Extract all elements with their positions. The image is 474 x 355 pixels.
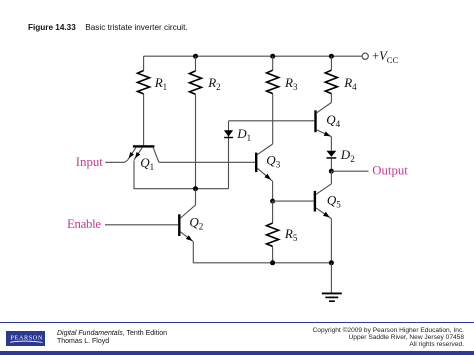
wire: D1 vertical from Q4 base line down to node B corner <box>228 121 230 189</box>
Q4 base bar <box>314 110 316 132</box>
copyright block <box>313 327 464 348</box>
svg-text:D2: D2 <box>340 147 355 164</box>
node: rail junction at R4 <box>329 54 334 59</box>
wire: down to ground <box>330 263 332 293</box>
svg-text:R1: R1 <box>154 75 167 92</box>
Q3 collector <box>257 144 272 155</box>
publication info <box>57 330 167 345</box>
svg-text:+VCC: +VCC <box>372 49 398 65</box>
Q5 base bar <box>314 191 316 212</box>
wire: Enable lead to Q2 base <box>105 224 178 226</box>
Q3 emitter with arrow <box>257 168 272 181</box>
wire: Q3 emitter down to node C <box>272 181 274 201</box>
wire: node C to Q5 base <box>273 200 314 202</box>
Q1 emitter 1 <box>128 148 136 160</box>
Q5 emitter with arrow <box>316 208 331 219</box>
svg-text:Q4: Q4 <box>326 112 340 129</box>
wire: Q5 emitter to ground node <box>330 219 332 263</box>
svg-text:Enable: Enable <box>67 217 101 231</box>
Q1 collector <box>153 148 159 163</box>
svg-text:Q1: Q1 <box>140 155 154 172</box>
wire: Q4 emitter to D2 <box>330 137 332 151</box>
node: ground junction dot <box>329 260 334 265</box>
transistor Q2 (enable) <box>178 189 195 242</box>
Q2 base bar <box>178 214 180 236</box>
svg-text:Q3: Q3 <box>266 152 280 169</box>
Pearson logo <box>6 331 46 345</box>
VCC terminal circle <box>362 53 368 59</box>
transistor Q1 (multi-emitter input transistor) <box>128 145 159 162</box>
wire: output lead <box>331 170 368 172</box>
node: R5 bottom junction dot <box>270 260 275 265</box>
figure caption <box>28 23 188 32</box>
svg-text:PEARSON: PEARSON <box>10 335 43 342</box>
D1 triangle <box>224 130 233 136</box>
Q2 collector <box>181 189 196 218</box>
node: rail junction at R3 <box>270 54 275 59</box>
Q4 emitter with arrow <box>317 130 332 137</box>
svg-text:Input: Input <box>76 155 103 169</box>
resistor R1 <box>138 56 150 145</box>
footer bottom blue band <box>0 351 474 355</box>
Q2 emitter with arrow <box>181 232 194 242</box>
D2 cathode bar <box>327 157 337 159</box>
svg-text:R2: R2 <box>207 75 220 92</box>
wire: Q1 emitter2 down and across to node B <box>134 160 229 188</box>
node: rail junction at R2 <box>193 54 198 59</box>
resistor R4 <box>325 56 337 102</box>
wire: +VCC top rail <box>144 55 362 57</box>
node C junction dot (Q3 emitter / R5 / Q5 base) <box>270 199 275 204</box>
D2 triangle <box>327 151 337 157</box>
wire: Input lead <box>105 160 127 162</box>
svg-text:R3: R3 <box>284 75 298 92</box>
svg-text:D1: D1 <box>236 126 251 143</box>
diode D2 <box>327 151 337 172</box>
ground symbol <box>322 293 342 301</box>
Q4 collector <box>317 103 332 113</box>
wire: Q2 emitter to bottom rail <box>193 242 331 263</box>
Q5 collector <box>316 171 331 194</box>
node: output junction dot <box>329 169 334 174</box>
resistor R3 <box>267 56 279 144</box>
wire: D2 to output node <box>330 159 332 172</box>
footer thin blue rule <box>0 322 474 323</box>
wire: Q1 collector to Q3 base <box>159 161 255 163</box>
wire: Q4 base line <box>229 120 315 122</box>
D1 cathode bar <box>224 137 233 138</box>
svg-text:Q5: Q5 <box>327 192 341 209</box>
resistor R2 <box>189 56 201 189</box>
Q1 emitter 2 <box>134 148 142 160</box>
transistor Q5 (output pull-down) <box>314 171 332 218</box>
diode D1 <box>224 121 233 189</box>
node B junction dot (R2/Q2 collector) <box>193 186 198 191</box>
transistor Q4 <box>314 103 331 137</box>
resistor R5 <box>267 201 279 263</box>
svg-text:Output: Output <box>372 164 408 178</box>
Q1 base bar <box>133 145 155 147</box>
svg-text:R4: R4 <box>343 75 357 92</box>
transistor Q3 (phase splitter) <box>255 144 273 181</box>
svg-text:R5: R5 <box>284 226 298 243</box>
svg-text:Q2: Q2 <box>189 215 203 232</box>
Q3 base bar <box>255 153 257 173</box>
